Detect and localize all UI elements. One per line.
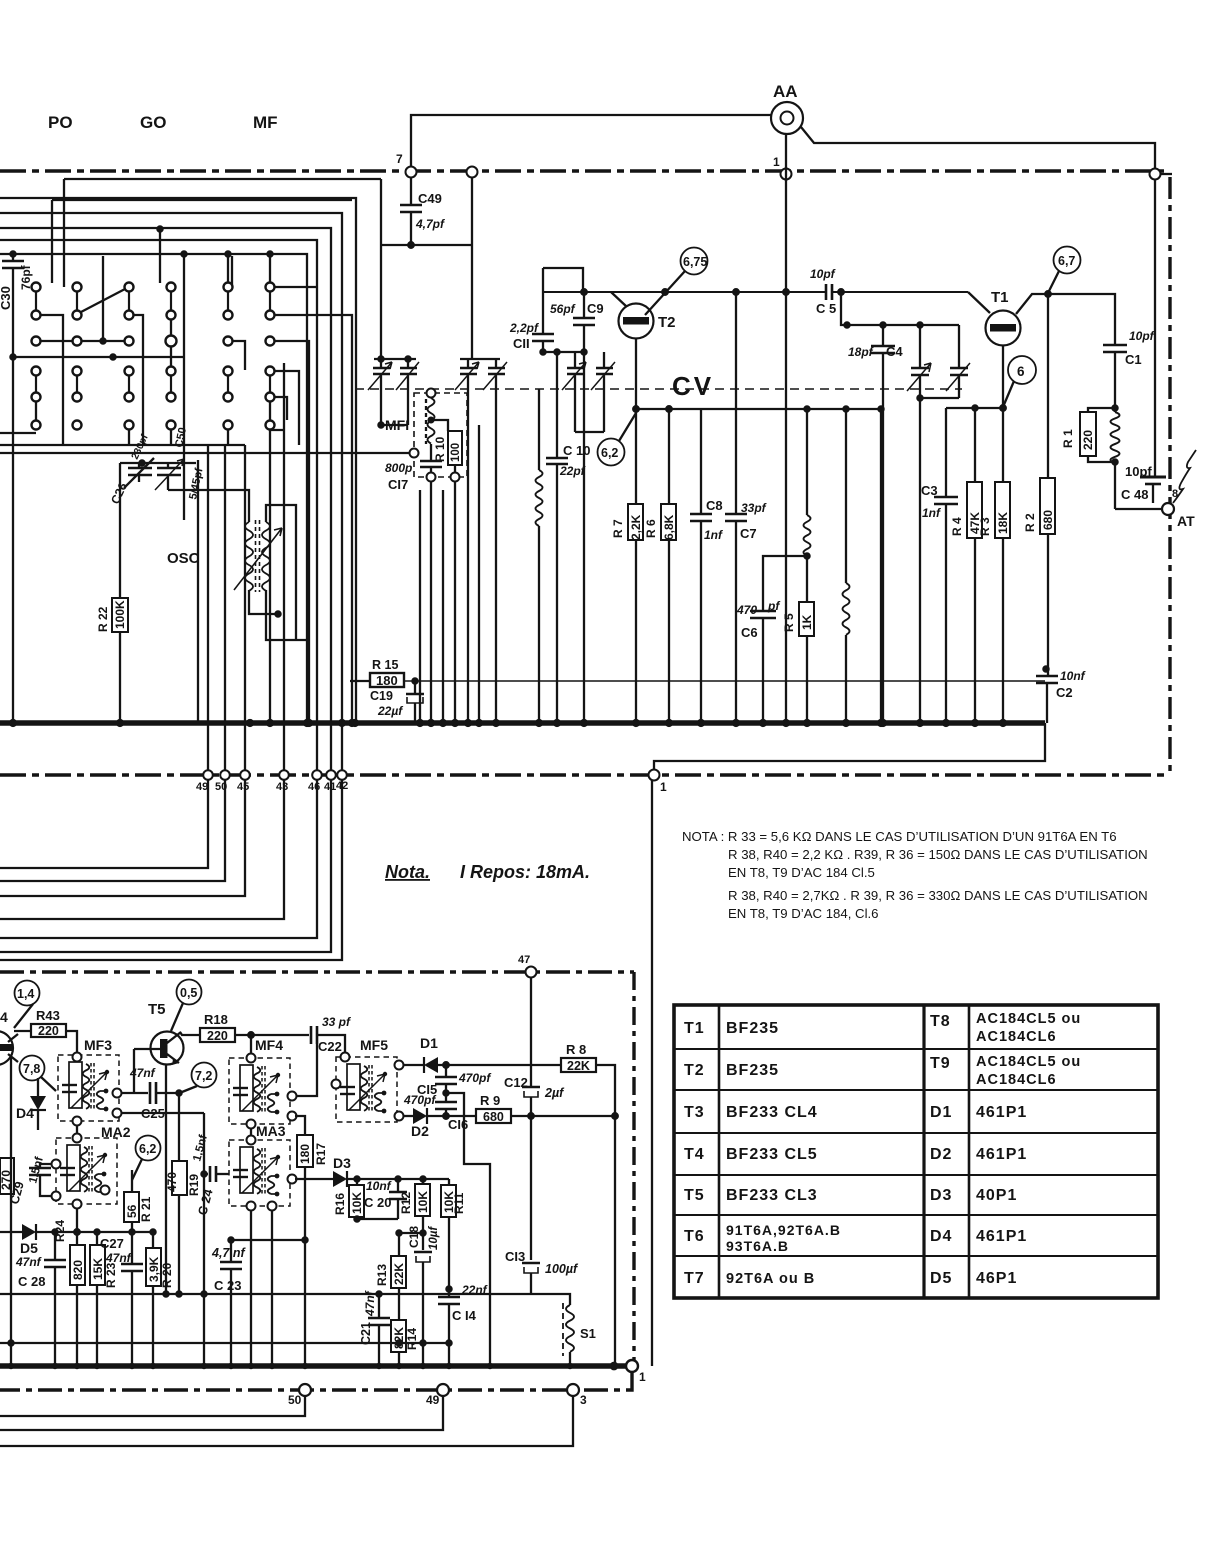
node: MF1 bottom terminals [427,473,436,482]
svg-text:6,75: 6,75 [683,255,707,269]
wire: top chassis dash-dot line [0,169,1164,172]
svg-text:3,9K: 3,9K [147,1256,161,1282]
node 47 [526,967,537,978]
svg-text:43: 43 [276,781,288,793]
svg-text:820: 820 [71,1260,85,1280]
callout 6,7 [1054,247,1081,274]
svg-text:1: 1 [773,155,780,169]
capacitor C7 33pf [735,292,737,514]
resistor R16 10K [356,1179,358,1185]
svg-text:BF233 CL3: BF233 CL3 [726,1187,818,1204]
svg-text:10pf: 10pf [1125,464,1152,479]
antenna terminal AA [771,102,803,134]
wire: bottom dash-dot line [0,1372,632,1390]
inductor L (detector coil 1) [806,409,808,515]
callout 6,2 [598,439,625,466]
svg-text:R14: R14 [405,1328,419,1350]
svg-text:680: 680 [483,1110,504,1124]
svg-text:pf: pf [767,599,780,613]
capacitor C8 1nf [700,409,702,514]
svg-text:C 10: C 10 [563,443,590,458]
svg-text:R18: R18 [204,1012,228,1027]
svg-text:R 21: R 21 [139,1196,153,1222]
svg-text:C2: C2 [1056,685,1073,700]
resistor R22 100K [112,598,128,632]
svg-text:680: 680 [1041,510,1055,530]
svg-text:6,7: 6,7 [1058,254,1075,268]
svg-text:MF5: MF5 [360,1037,388,1053]
svg-text:461P1: 461P1 [976,1146,1027,1163]
svg-text:R 7: R 7 [611,519,625,538]
svg-text:47nf: 47nf [15,1255,42,1269]
svg-text:MF4: MF4 [255,1037,283,1053]
svg-text:47nf: 47nf [129,1066,156,1080]
resistor R43 220 [14,1030,31,1032]
wire: T5 base column to ground rail [203,1113,205,1294]
transistor T1 [986,311,1021,346]
svg-text:22pf: 22pf [559,464,586,478]
wire: terminal 50 return [0,1396,305,1416]
svg-text:10nf: 10nf [1060,669,1086,683]
capacitor C26 230pf (variable) [128,467,152,470]
wire: horizontal link under matrix [13,356,184,358]
wire: main RF rail [543,268,583,292]
svg-text:C19: C19 [370,689,393,703]
svg-text:6,2: 6,2 [139,1142,156,1156]
svg-text:AC184CL5 ou: AC184CL5 ou [976,1054,1081,1070]
svg-text:R 38, R40 = 2,7KΩ . R 39, R 36: R 38, R40 = 2,7KΩ . R 39, R 36 = 330Ω DA… [728,888,1148,903]
svg-text:10µf: 10µf [428,1226,440,1250]
svg-text:D4: D4 [16,1105,34,1121]
resistor R18 220 [180,1032,200,1035]
svg-text:CI6: CI6 [448,1117,468,1132]
resistor R20 3,9K [152,1232,154,1248]
svg-text:R 6: R 6 [644,519,658,538]
callout 6,2 (IF) [136,1136,161,1161]
wire: C22 plate to MF4 [295,1044,317,1096]
svg-text:I Repos: 18mA.: I Repos: 18mA. [460,862,590,882]
wire: T1 collector to C1 [1016,294,1115,345]
svg-text:800p: 800p [385,461,412,475]
inductor L (detector coil 2) [845,409,847,583]
svg-text:C9: C9 [587,301,604,316]
svg-text:R16: R16 [333,1193,347,1215]
wire: AGC branch [443,1090,448,1095]
capacitor C6 470pf [763,556,807,611]
resistor R14 82K [391,1320,406,1352]
coil MF1 primary [428,398,435,444]
svg-text:6: 6 [1017,364,1025,379]
svg-text:470: 470 [165,1172,179,1192]
svg-text:220: 220 [1081,430,1095,450]
svg-text:4,7 nf: 4,7 nf [211,1246,246,1260]
variable capacitor gang section 1a [368,356,419,427]
svg-text:R 1: R 1 [1061,429,1075,448]
svg-text:270: 270 [0,1170,13,1190]
wire: ground rail thin (lower) [0,1342,449,1344]
capacitor C17 800p [430,444,432,461]
svg-text:C4: C4 [886,344,903,359]
svg-text:D2: D2 [411,1123,429,1139]
variable capacitor gang section 3 [907,325,970,726]
svg-text:470pf: 470pf [458,1071,491,1085]
switch wiper diagonal [81,289,125,312]
capacitor C1 10pf [1103,344,1127,347]
capacitor C25 47nf [121,1092,148,1094]
inductor S1 [562,1303,564,1356]
wire: AA left feeder [411,115,771,172]
svg-text:D3: D3 [333,1155,351,1171]
svg-text:470pf: 470pf [403,1093,436,1107]
capacitor C15 470pf [445,1065,447,1077]
svg-text:MA3: MA3 [256,1123,286,1139]
wire: AA down line [785,134,787,723]
svg-text:PO: PO [48,113,73,132]
resistor R24 820 [76,1208,78,1245]
wire: thin supply rail above bus [404,680,1045,682]
bus junction dots (left) [10,720,16,726]
svg-text:T3: T3 [684,1104,705,1121]
capacitor C28 47nf [54,1232,56,1260]
capacitor C16 470pf [435,1101,457,1104]
wire: C13 to S1 [531,1294,570,1305]
resistor R1 220 (with coil) [1088,408,1115,412]
svg-text:CI7: CI7 [388,477,408,492]
wire: AA column bus dot [783,720,789,726]
svg-text:R 4: R 4 [950,517,964,536]
svg-text:49: 49 [196,781,208,793]
resistor R17 180 [295,1116,305,1135]
wire: lower dash-dot vertical [632,972,635,1360]
terminal AT [1162,503,1174,515]
svg-text:R 15: R 15 [372,658,398,672]
svg-text:7,8: 7,8 [23,1062,40,1076]
capacitor C4 18pf [882,325,884,346]
svg-text:0,5: 0,5 [180,986,197,1000]
resistor R21 56 [131,1170,133,1192]
svg-text:50: 50 [288,1393,302,1407]
svg-text:56: 56 [125,1204,139,1218]
svg-text:D1: D1 [930,1104,952,1121]
svg-text:4: 4 [0,1009,8,1025]
svg-text:C 28: C 28 [18,1274,45,1289]
CV dashed gang line [355,388,962,390]
svg-text:BF235: BF235 [726,1062,779,1079]
note: NOTA paragraph [682,829,1148,921]
svg-text:AC184CL6: AC184CL6 [976,1072,1057,1088]
svg-text:R 2: R 2 [1023,513,1037,532]
terminal 50 [299,1384,311,1396]
svg-text:C8: C8 [706,498,723,513]
svg-text:C30: C30 [0,286,13,310]
wire: ground rail thin (upper) [0,1293,531,1295]
svg-text:C21: C21 [359,1322,373,1345]
node: open circle at second feeder [467,167,478,178]
svg-text:92T6A ou B: 92T6A ou B [726,1271,815,1287]
table text [684,1011,1081,1287]
wire: lower matrix rail [0,444,245,446]
svg-text:22µf: 22µf [377,704,403,718]
antenna lead squiggle [1173,450,1196,503]
variable capacitor gang section 1b [455,359,507,723]
capacitor C14 22nf [438,1296,460,1299]
inductor (R1 parallel coil) [1114,408,1116,412]
svg-text:R17: R17 [314,1143,328,1165]
wire: to AT [1115,508,1161,510]
svg-text:470: 470 [736,603,757,617]
resistor R3 18K [995,482,1010,538]
svg-text:T4: T4 [684,1146,705,1163]
callout 7,8 [20,1056,45,1081]
callout 6,75 [681,248,708,275]
svg-text:D5: D5 [20,1240,38,1256]
svg-text:MF: MF [253,113,278,132]
svg-text:AC184CL6: AC184CL6 [976,1029,1057,1045]
terminal 49 [437,1384,449,1396]
wire: col5/col6 top feeds [227,254,229,282]
svg-text:1nf: 1nf [922,506,941,520]
wire: OSC connections [266,505,296,640]
svg-text:R 10: R 10 [433,436,447,462]
svg-text:10pf: 10pf [1129,329,1155,343]
svg-text:10K: 10K [442,1191,456,1213]
svg-text:91T6A,92T6A.B: 91T6A,92T6A.B [726,1222,841,1238]
svg-text:100: 100 [450,443,462,462]
svg-text:EN T8, T9 D’AC 184, Cl.6: EN T8, T9 D’AC 184, Cl.6 [728,906,879,921]
svg-text:6,8K: 6,8K [662,514,676,540]
svg-text:100µf: 100µf [545,1262,579,1276]
svg-text:18K: 18K [996,512,1010,534]
svg-text:1nf: 1nf [704,528,723,542]
svg-text:BF235: BF235 [726,1020,779,1037]
svg-text:D3: D3 [930,1187,952,1204]
capacitor C49 4,7pf [410,177,412,205]
svg-text:C27: C27 [100,1236,124,1251]
svg-text:R43: R43 [36,1008,60,1023]
transistor T2 [619,304,654,339]
svg-text:C 5: C 5 [816,301,836,316]
node 1 mid vertical wire [651,780,653,1366]
capacitor C30 76pf [10,251,15,256]
wire: C23 link rail [231,1239,305,1241]
node: chassis corner circle right [1150,169,1161,180]
svg-text:AA: AA [773,82,798,101]
callout 0,5 [177,980,202,1005]
node 1 (on middle chassis line) [649,770,660,781]
svg-text:6,2: 6,2 [601,446,618,460]
resistor R12 10K [422,1179,424,1184]
svg-text:T1: T1 [991,289,1009,306]
svg-text:T8: T8 [930,1013,951,1030]
svg-text:R 8: R 8 [566,1042,586,1057]
resistor R9 680 [476,1109,511,1123]
svg-text:4,7pf: 4,7pf [415,217,445,231]
inductor (osc coupling coil) [538,389,540,470]
svg-text:NOTA : R 33 = 5,6 KΩ DANS LE: NOTA : R 33 = 5,6 KΩ DANS LE CAS D’UTILI… [682,829,1117,844]
svg-text:1: 1 [660,780,667,794]
svg-text:22K: 22K [392,1263,406,1285]
wire: C26 left leg down to R22 [119,463,121,598]
wire: terminal 49 return [0,1396,443,1430]
svg-text:R 38, R40 = 2,2 KΩ . R39, R 36: R 38, R40 = 2,2 KΩ . R39, R 36 = 150Ω DA… [728,847,1148,862]
svg-text:BF233 CL5: BF233 CL5 [726,1146,818,1163]
terminal 50 [220,770,230,780]
svg-text:R24: R24 [53,1220,67,1242]
wire: C26/C50 top rail [120,462,196,464]
capacitor C2 10nf [1043,666,1048,671]
svg-text:C6: C6 [741,625,758,640]
svg-text:3: 3 [580,1393,587,1407]
svg-text:82K: 82K [392,1327,406,1349]
svg-text:C3: C3 [921,483,938,498]
wire: AA right feeder to right edge [801,127,1155,471]
terminal 42 [337,770,347,780]
node 1 (bottom bus) [626,1360,638,1372]
svg-text:7,2: 7,2 [195,1069,212,1083]
svg-text:MFI: MFI [385,417,409,433]
svg-text:T7: T7 [684,1270,705,1287]
svg-text:49: 49 [426,1393,440,1407]
wire: col6 drop [269,430,271,723]
svg-text:2µf: 2µf [544,1086,565,1100]
wire: bus return drop [654,723,1045,775]
wire: C50 to OSC [168,490,249,522]
svg-text:33 pf: 33 pf [322,1015,351,1029]
svg-text:T5: T5 [148,1001,166,1018]
svg-text:R 23: R 23 [104,1262,118,1288]
svg-text:AT: AT [1177,513,1195,529]
svg-text:2,2K: 2,2K [629,514,643,540]
svg-text:CV: CV [672,371,714,401]
svg-text:10K: 10K [416,1191,430,1213]
capacitor C11 2,2pf [542,268,544,334]
svg-text:461P1: 461P1 [976,1104,1027,1121]
svg-text:R12: R12 [399,1192,413,1214]
svg-text:C7: C7 [740,526,757,541]
svg-text:2,2pf: 2,2pf [509,321,539,335]
bus junction dots (bottom) [8,1363,573,1369]
resistor R13 22K [398,1233,400,1256]
svg-text:10nf: 10nf [366,1179,392,1193]
wire: line with C30 tap [0,254,307,723]
svg-text:T5: T5 [684,1187,705,1204]
node: MF1 left terminal [410,449,419,458]
parts table frame [674,1005,1158,1298]
resistor R15 180 [350,680,370,682]
svg-text:BF233 CL4: BF233 CL4 [726,1104,818,1121]
wire: C4 branch rail [838,289,844,295]
svg-text:C49: C49 [418,191,442,206]
svg-text:22K: 22K [567,1059,590,1073]
svg-text:1,4: 1,4 [17,987,34,1001]
capacitor C10 22pf [556,352,558,458]
svg-text:56pf: 56pf [550,302,576,316]
svg-text:GO: GO [140,113,166,132]
svg-text:C 20: C 20 [364,1195,391,1210]
capacitor C20 10nf [397,1179,399,1192]
capacitor C18 10µf [414,1251,432,1254]
variable capacitor gang section 2 [562,352,615,432]
svg-text:R 3: R 3 [978,517,992,536]
svg-text:C 23: C 23 [214,1278,241,1293]
svg-text:D2: D2 [930,1146,952,1163]
svg-text:C22: C22 [318,1039,342,1054]
wire: stair return wires to left edge [0,780,208,868]
resistor R2 680 [1047,294,1049,478]
svg-text:47: 47 [518,954,530,966]
svg-text:R13: R13 [375,1264,389,1286]
svg-text:C1: C1 [1125,352,1142,367]
wire: T2 emitter [635,339,637,409]
resistor R11 10K [448,1179,450,1185]
svg-text:R 5: R 5 [782,613,796,632]
svg-text:10pf: 10pf [810,267,836,281]
svg-text:180: 180 [376,673,398,688]
capacitor C29 1,5nf [40,1164,52,1168]
capacitor C5 10pf (series in rail) [825,284,828,300]
svg-text:T9: T9 [930,1055,951,1072]
svg-text:D4: D4 [930,1228,952,1245]
capacitor C48 10pf [1154,471,1156,477]
svg-text:220: 220 [207,1029,228,1043]
callout 1,4 [15,981,40,1006]
svg-text:10K: 10K [350,1192,364,1214]
resistor R10 100 [431,420,448,431]
terminal 49 [203,770,213,780]
wire: terminal 3 return [0,1396,573,1446]
svg-text:46P1: 46P1 [976,1270,1017,1287]
wire: lower dash-dot frame top [0,970,634,973]
capacitor C9 56pf [583,292,585,318]
terminal 46 [312,770,322,780]
svg-text:40P1: 40P1 [976,1187,1017,1204]
capacitor C50 5/45pf (variable) [157,467,181,470]
svg-text:7: 7 [396,152,403,166]
svg-text:46: 46 [308,781,320,793]
terminal 43 [279,770,289,780]
svg-text:18pf: 18pf [848,345,874,359]
svg-text:33pf: 33pf [741,501,767,515]
transformer OSC [234,520,282,592]
resistor R6 6,8K [668,409,670,504]
svg-text:220: 220 [38,1024,59,1038]
resistor R4 47K [974,408,976,482]
capacitor C23 4,7nf [230,1240,232,1262]
capacitor C3 1nf [945,408,947,497]
wire bundle from left edge [64,178,381,180]
svg-text:45: 45 [237,781,249,793]
resistor R23 15K [96,1232,98,1245]
resistor R19 470 [178,1093,180,1161]
svg-text:CII: CII [513,336,530,351]
resistor R8 22K [561,1058,596,1072]
svg-text:T2: T2 [658,314,676,331]
capacitor C22 33pf [310,1026,313,1044]
svg-text:R 9: R 9 [480,1093,500,1108]
capacitor C24 1,5nf [204,1173,208,1175]
terminal 41 [326,770,336,780]
wire: C49 node branches [381,244,472,246]
terminal 3 [567,1384,579,1396]
resistor R7 2,2K [635,409,637,504]
svg-text:T1: T1 [684,1020,705,1037]
callout 7,2 [192,1063,217,1088]
svg-text:T2: T2 [684,1062,705,1079]
wire: middle chassis dash-dot line [0,773,1166,776]
svg-text:R 22: R 22 [96,606,110,632]
svg-text:C I4: C I4 [452,1308,477,1323]
wire: main ground bus (thick) [0,720,1045,726]
